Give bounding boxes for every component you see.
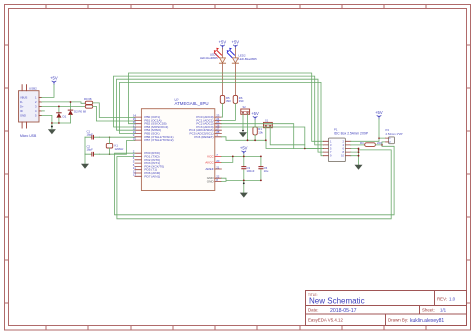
- svg-text:+5V: +5V: [375, 110, 383, 115]
- resistor R5 390: [220, 95, 231, 103]
- svg-text:Micro USB: Micro USB: [20, 134, 37, 138]
- power flag +5V (LED1): [219, 40, 227, 49]
- svg-text:VBUS: VBUS: [20, 95, 28, 99]
- IC U? ATMEGA8L_8PU microcontroller: [133, 98, 222, 190]
- svg-text:20: 20: [216, 159, 220, 163]
- diode D2: [68, 110, 78, 124]
- wire PC3 right: [221, 127, 304, 149]
- svg-text:R0 68: R0 68: [79, 109, 87, 113]
- wire D- line: [42, 102, 86, 103]
- svg-text:100nF: 100nF: [247, 169, 255, 173]
- svg-text:IDC Box 2.54mm 2X9P: IDC Box 2.54mm 2X9P: [334, 131, 369, 135]
- svg-text:2018-05-17: 2018-05-17: [330, 308, 357, 314]
- title block: [306, 291, 467, 326]
- svg-text:Date:: Date:: [308, 308, 319, 313]
- svg-text:ATMEGA8L_8PU: ATMEGA8L_8PU: [175, 101, 209, 106]
- svg-text:S1: S1: [265, 119, 269, 123]
- pushbutton S2: [241, 105, 250, 140]
- wire GND rail (C3/C5): [221, 178, 261, 181]
- power flag +5V (USB): [50, 76, 58, 85]
- wire D2 tap: [70, 102, 72, 110]
- ground (crystal): [81, 154, 89, 169]
- svg-text:S2: S2: [243, 105, 247, 109]
- wire VCC rail: [221, 154, 261, 156]
- wire GND from pin5: [42, 115, 71, 123]
- svg-text:13: 13: [133, 173, 137, 177]
- node junctions P1 gnd: [358, 148, 360, 157]
- svg-text:18pF: 18pF: [87, 133, 94, 137]
- svg-text:PD7 (AIN1): PD7 (AIN1): [144, 174, 160, 178]
- connector P1 IDC Box 2.54mm 2X9P: [323, 128, 368, 162]
- wire R5 to PC0: [221, 103, 222, 117]
- svg-text:R0 68: R0 68: [84, 97, 92, 101]
- U? left pin names PB0-PB7 / PD0-PD7: [144, 115, 173, 178]
- svg-text:10k: 10k: [258, 130, 263, 134]
- svg-text:D-: D-: [20, 100, 23, 104]
- resistor R4: [351, 141, 389, 146]
- wire P1 gnd pins: [351, 149, 359, 165]
- capacitor C5 10u: [259, 156, 269, 180]
- LED LED2 LED-Blue0805: [227, 48, 257, 96]
- U? pin stubs (PB/PD/PC/AREF/GND pins): [135, 117, 222, 181]
- wire VBUS to +5V: [42, 85, 54, 98]
- svg-text:+5V: +5V: [232, 40, 240, 45]
- wire RESET rail: [221, 137, 323, 149]
- wire bus line 2 (PB3 to P1 pin3): [113, 76, 323, 145]
- power flag +5V (LED2): [232, 40, 240, 49]
- svg-text:kuklin.alexey81: kuklin.alexey81: [410, 318, 444, 324]
- svg-text:D1: D1: [63, 115, 67, 119]
- svg-text:LED-Blue0805: LED-Blue0805: [239, 57, 258, 61]
- wire R0 out to PB0: [93, 103, 135, 118]
- svg-text:390: 390: [239, 99, 244, 103]
- svg-text:390: 390: [226, 99, 231, 103]
- connector USB2 Micro USB: [19, 85, 42, 138]
- wire bus line 4 (PB5 to P1 pin9): [119, 82, 323, 155]
- connector P4 2.54mm 1*2P: [386, 128, 403, 144]
- pushbutton S1: [264, 119, 305, 145]
- wire R6 to PC1: [221, 103, 235, 120]
- node junctions reset rail: [247, 139, 267, 141]
- svg-text:18pF: 18pF: [87, 148, 94, 152]
- svg-text:2.54mm 1*2P: 2.54mm 1*2P: [386, 132, 403, 136]
- crystal K1 12MHz: [106, 136, 124, 155]
- wire bottom loop A (PD0): [114, 145, 394, 215]
- resistor R1 10k: [253, 120, 264, 140]
- capacitor C3 100nF: [242, 156, 255, 180]
- svg-text:GND: GND: [20, 113, 26, 117]
- wire D1 tap: [58, 106, 60, 112]
- svg-text:D+: D+: [20, 104, 24, 108]
- svg-text:12MHz: 12MHz: [115, 147, 124, 151]
- svg-text:LED-Red0805: LED-Red0805: [200, 56, 218, 60]
- U? pin stubs VCC/AVCC (pins 7,20): [215, 156, 222, 162]
- USB2 pin stubs and shield pins: [22, 85, 41, 128]
- U? body outline: [141, 109, 214, 191]
- power flag +5V (R1): [251, 111, 259, 120]
- wire PC2 to reset line: [221, 124, 293, 149]
- node junction loop A / R4 net: [381, 144, 383, 146]
- svg-text:USB2: USB2: [29, 87, 37, 91]
- U? right pin names PC0-PC6 / AREF / GND: [189, 115, 214, 183]
- wire bus line 3 (PB4 to P1 pin7): [116, 79, 323, 152]
- diode D1: [56, 113, 66, 123]
- wire bus line 1 (PB2 to P1 pin1): [129, 73, 324, 141]
- wire reset to P1 pin5: [305, 148, 324, 150]
- ground (USB): [48, 123, 56, 134]
- svg-text:1/1: 1/1: [440, 308, 447, 313]
- svg-text:REV:: REV:: [437, 297, 447, 302]
- node junctions VCC/GND rails: [232, 156, 262, 182]
- node junctions USB: [51, 101, 71, 124]
- capacitor C1 18pF: [85, 130, 100, 139]
- capacitor C2 18pF: [85, 145, 100, 156]
- svg-text:AREF: AREF: [205, 167, 213, 171]
- svg-text:EasyEDA V5.4.12: EasyEDA V5.4.12: [308, 318, 343, 323]
- power flag +5V (VCC rail): [240, 146, 248, 155]
- svg-text:ID: ID: [20, 109, 23, 113]
- U? pin numbers: [133, 114, 220, 182]
- resistor R6 390: [233, 95, 244, 103]
- svg-text:R4: R4: [360, 141, 364, 145]
- ground (button S2): [239, 130, 247, 137]
- svg-text:+5V: +5V: [219, 40, 227, 45]
- node junction PC3/reset: [304, 148, 306, 150]
- power flag +5V (P1): [375, 110, 383, 119]
- wire bottom loop B (PD1): [117, 150, 391, 219]
- wire D+ line: [42, 105, 86, 107]
- svg-text:GND: GND: [207, 179, 215, 183]
- ground (P1): [355, 165, 363, 170]
- wire +5V drop to P1 pin2 / P4 pin1: [351, 119, 386, 141]
- node junction +5V drop: [378, 137, 380, 139]
- svg-text:PB7 (XTAL2/TOSC2): PB7 (XTAL2/TOSC2): [144, 138, 173, 142]
- svg-text:10u: 10u: [264, 169, 269, 173]
- ground (C3/C5): [240, 180, 248, 197]
- wire AVCC jog: [221, 156, 232, 162]
- svg-text:+5V: +5V: [50, 76, 58, 81]
- resistor R0 68 (D+ series): [79, 105, 93, 113]
- svg-text:10: 10: [133, 137, 137, 141]
- svg-text:+5V: +5V: [251, 111, 259, 116]
- svg-text:PC6 (RESET): PC6 (RESET): [194, 135, 213, 139]
- svg-text:1.0: 1.0: [449, 297, 456, 302]
- node junction loop B / P1 gnd net: [358, 149, 360, 151]
- wire R2 out to PB1: [93, 106, 135, 121]
- wire ID stub: [42, 110, 45, 112]
- svg-text:Drawn By:: Drawn By:: [388, 318, 408, 323]
- wire XTAL1 to PB6: [100, 136, 135, 138]
- LED LED1 LED-Red0805: [200, 48, 226, 96]
- svg-text:New Schematic: New Schematic: [309, 297, 365, 306]
- resistor R0 68 (D- series): [84, 97, 93, 105]
- svg-text:Sheet:: Sheet:: [422, 308, 435, 313]
- svg-text:220: 220: [377, 141, 382, 145]
- USB2 body outline: [19, 91, 40, 122]
- svg-text:AVCC: AVCC: [205, 160, 214, 164]
- svg-text:21: 21: [216, 165, 220, 169]
- wire crystal left leg: [84, 137, 86, 154]
- svg-text:+5V: +5V: [240, 146, 248, 151]
- svg-text:VCC: VCC: [207, 154, 214, 158]
- U? pin names VCC/AVCC: [205, 154, 214, 164]
- wire XTAL2 jog to PB7: [100, 141, 135, 155]
